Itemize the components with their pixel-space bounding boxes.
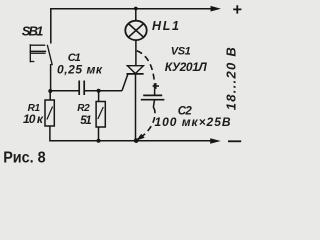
wire: top positive rail bbox=[51, 8, 211, 10]
arrowhead top rail bbox=[211, 6, 222, 12]
gate wire bbox=[122, 74, 128, 91]
lamp HL1 bbox=[135, 9, 137, 21]
wire: left drop from corner to switch bbox=[50, 8, 52, 44]
svg-text:18...20 В: 18...20 В bbox=[224, 47, 239, 110]
resistor R1 bbox=[49, 91, 51, 100]
wire: node A horizontal bbox=[50, 90, 79, 92]
thyristor VS1 bbox=[127, 66, 143, 74]
svg-text:10 к: 10 к bbox=[23, 112, 44, 126]
svg-text:100 мк×25В: 100 мк×25В bbox=[155, 115, 231, 129]
wire: C1 to gate run bbox=[85, 90, 123, 92]
dashed arc (optional C2 branch, upper half) bbox=[137, 51, 155, 89]
junction: lamp top bbox=[134, 7, 138, 11]
node A junction bbox=[48, 89, 52, 93]
junction: cathode bottom bbox=[134, 138, 139, 143]
dashed arc (optional C2 branch, lower half) bbox=[140, 108, 156, 139]
svg-text:51: 51 bbox=[80, 115, 92, 127]
arrowhead bottom rail bbox=[210, 138, 221, 144]
paper background bbox=[0, 0, 244, 173]
svg-text:R2: R2 bbox=[77, 103, 90, 114]
svg-text:Рис. 8: Рис. 8 bbox=[3, 150, 46, 167]
resistor R2 bbox=[98, 91, 100, 102]
wire: cathode down bbox=[135, 74, 137, 141]
plus terminal symbol bbox=[233, 5, 241, 13]
junction: R2 bottom bbox=[97, 139, 101, 143]
svg-text:0,25 мк: 0,25 мк bbox=[57, 62, 103, 76]
node: R2 top junction bbox=[97, 89, 101, 93]
svg-text:VS1: VS1 bbox=[171, 46, 191, 58]
minus terminal symbol bbox=[228, 140, 241, 142]
capacitor C1 bbox=[78, 81, 80, 96]
svg-text:SB1: SB1 bbox=[22, 23, 44, 38]
switch SB1 bbox=[30, 44, 53, 65]
capacitor C2 bbox=[154, 89, 156, 95]
svg-text:КУ201Л: КУ201Л bbox=[165, 60, 208, 74]
wire: lamp to thyristor bbox=[135, 40, 137, 66]
wire: bottom negative rail bbox=[49, 140, 211, 142]
plus of C2 bbox=[153, 83, 159, 89]
wire: switch to node A bbox=[50, 64, 52, 91]
arrowhead of dashed arc bbox=[136, 134, 145, 141]
svg-text:HL1: HL1 bbox=[152, 19, 179, 33]
